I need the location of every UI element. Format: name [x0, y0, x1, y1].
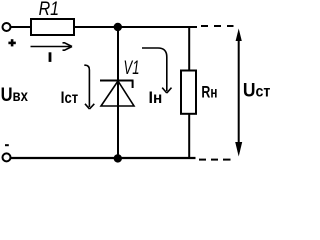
- resistor Rn: [181, 71, 196, 114]
- zener diode V1: [100, 81, 134, 107]
- svg-text:Uст: Uст: [243, 81, 271, 102]
- wire: top-left terminal to R1: [11, 26, 31, 28]
- plus sign: [8, 39, 15, 46]
- current arrow Ict (curved): [84, 65, 94, 109]
- resistor R1: [31, 19, 74, 35]
- wire: Rn to bottom wire: [188, 114, 190, 159]
- triangle (anode): [101, 81, 134, 106]
- label I: [49, 52, 52, 62]
- wire: branch down to Rn: [188, 27, 190, 71]
- svg-text:Rн: Rн: [201, 83, 217, 101]
- minus sign: [5, 144, 9, 146]
- current arrow In (curved): [142, 48, 172, 93]
- svg-text:V1: V1: [124, 58, 140, 79]
- svg-text:Iн: Iн: [149, 89, 163, 107]
- svg-text:Uвх: Uвх: [1, 84, 29, 106]
- current arrow I: [31, 43, 73, 50]
- input terminal bottom-left: [3, 153, 11, 161]
- input terminal top-left: [3, 23, 11, 31]
- svg-text:Iст: Iст: [61, 89, 79, 107]
- cathode bar: [100, 80, 134, 82]
- top dashed wire: [201, 25, 234, 27]
- node: top junction: [114, 23, 122, 31]
- wire: R1 to right corner: [74, 26, 197, 28]
- svg-text:R1: R1: [39, 0, 60, 20]
- node: bottom junction: [114, 154, 122, 162]
- bottom dashed wire: [199, 159, 231, 161]
- zener hook: [132, 81, 134, 89]
- wire: vertical through zener V1: [117, 27, 119, 158]
- bottom wire: [11, 157, 196, 159]
- voltage arrow Uct (double-headed): [235, 29, 242, 157]
